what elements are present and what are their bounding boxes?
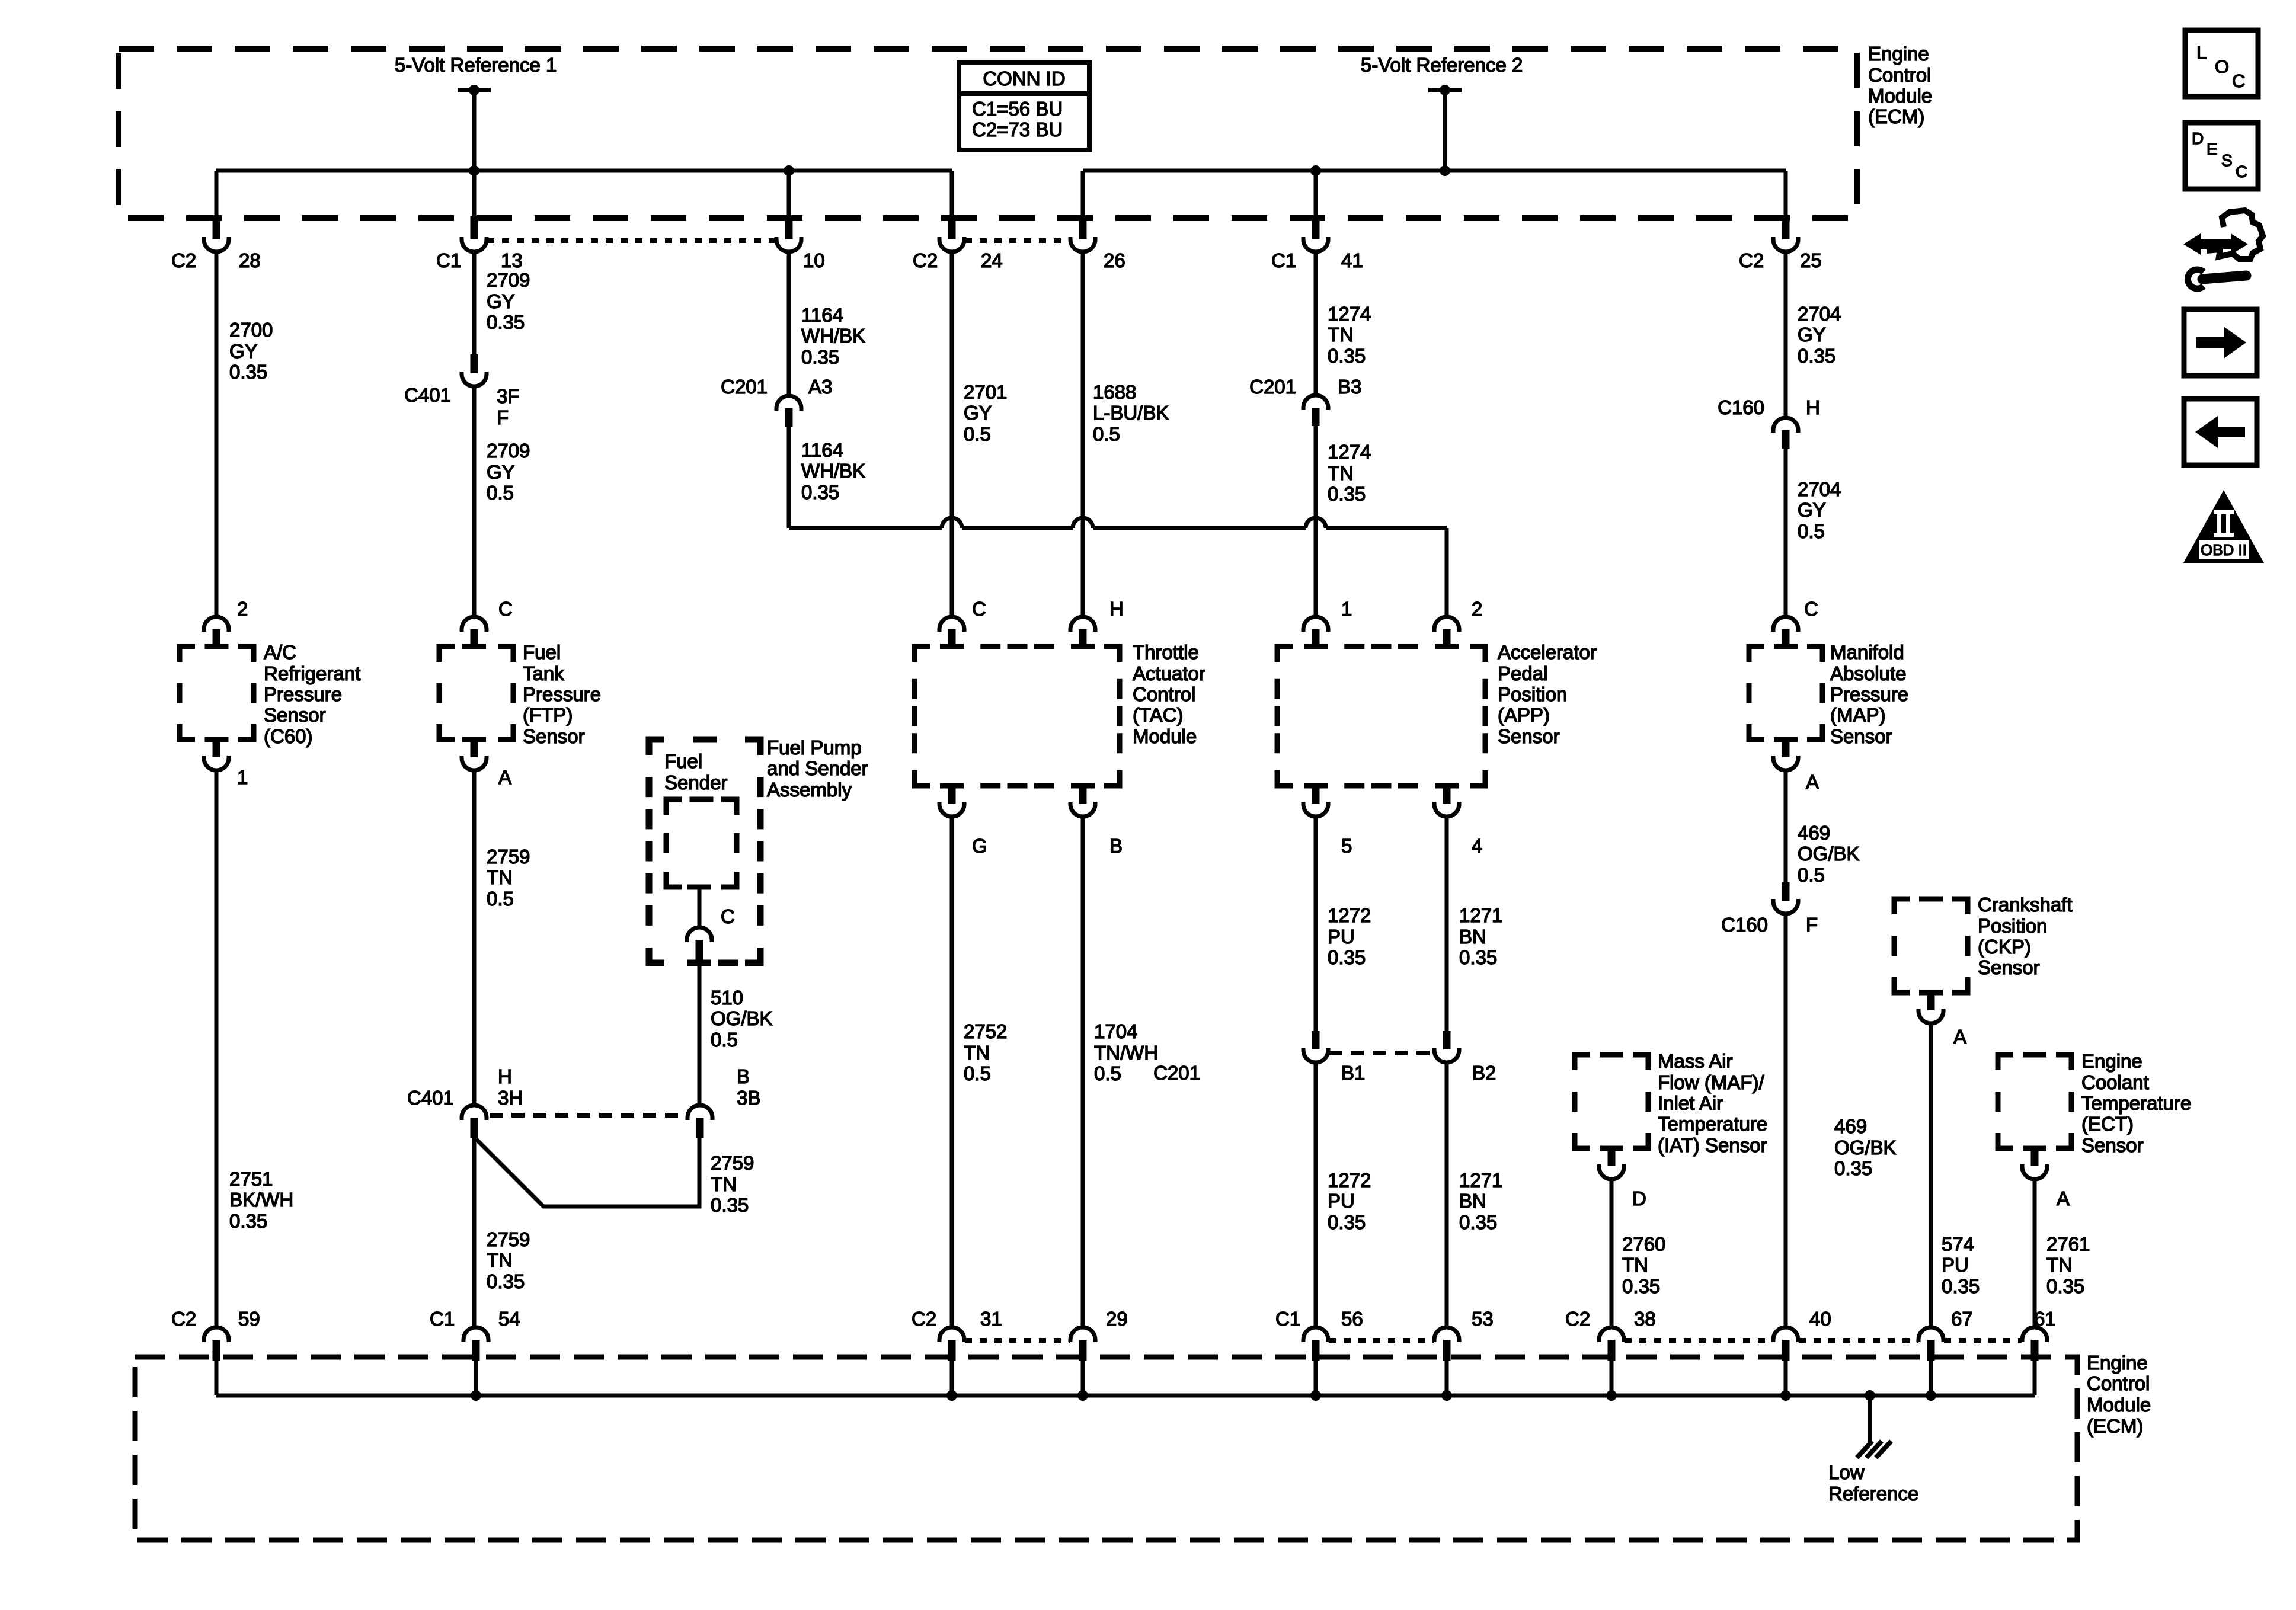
svg-text:2751: 2751 [229,1168,273,1190]
wire hop at 1606 [942,518,962,528]
connector ECM pin C2 24 [948,216,956,239]
svg-text:Position: Position [1498,683,1567,705]
svg-text:Engine: Engine [2081,1050,2142,1072]
svg-text:G: G [972,835,987,857]
svg-text:GY: GY [1798,499,1826,521]
svg-text:24: 24 [981,249,1003,271]
junction 31/bus [946,1390,957,1401]
svg-text:Engine: Engine [2087,1352,2148,1374]
svg-text:5-Volt Reference 2: 5-Volt Reference 2 [1361,54,1523,76]
svg-text:2: 2 [237,598,248,620]
svg-text:1272: 1272 [1328,904,1371,926]
icon back arrow box [2184,399,2257,465]
junction bus1/C1-13 [469,165,479,176]
svg-text:5: 5 [1341,835,1352,857]
svg-text:0.35: 0.35 [801,346,839,368]
ground chassis symbol [1857,1441,1872,1458]
svg-text:F: F [497,406,509,428]
connector ECM pin C1 56 [1303,1327,1328,1342]
svg-text:(APP): (APP) [1498,704,1550,726]
wire 2751 to C2 59 [215,770,219,1326]
svg-text:WH/BK: WH/BK [801,325,865,347]
svg-text:0.5: 0.5 [964,1062,991,1084]
svg-text:0.35: 0.35 [1328,946,1366,968]
connector C160 H [1773,418,1798,433]
svg-text:2: 2 [1472,598,1482,620]
connector APP pin 1 [1303,617,1328,632]
svg-text:GY: GY [487,461,515,483]
connector ECM pin 61 [2022,1327,2047,1342]
svg-text:Position: Position [1978,915,2047,937]
wire 1704 to 29 [1081,817,1085,1326]
svg-text:Pedal: Pedal [1498,662,1547,684]
wire bus1 drop to pin 10 [787,171,791,217]
wire low reference bus [216,1394,2035,1398]
svg-text:H: H [498,1065,512,1087]
wire 2759 0.35 to C1 54 [472,1138,477,1326]
svg-text:Temperature: Temperature [1658,1113,1767,1135]
svg-text:C2: C2 [171,249,196,271]
svg-text:3F: 3F [497,385,520,407]
svg-text:1272: 1272 [1328,1169,1371,1191]
wire 469 0.5 to C160 F [1784,770,1788,885]
svg-text:Actuator: Actuator [1133,662,1205,684]
svg-text:TN: TN [487,1249,513,1271]
connector MAP pin A [1782,740,1790,757]
connector ECM pin C2 28 [213,216,220,239]
connector C201 A3 [776,396,801,411]
wire 1272 from APP 5 [1314,817,1318,1032]
CONN ID table [959,63,1089,150]
svg-text:574: 574 [1942,1233,1974,1255]
svg-text:C201: C201 [721,376,768,398]
wire 2704 0.5 to MAP C [1784,447,1788,617]
svg-text:C201: C201 [1249,376,1296,398]
svg-text:Module: Module [1133,725,1197,747]
svg-text:TN/WH: TN/WH [1094,1042,1158,1064]
connector line C2 24 to 26 (dotted) [965,238,1070,243]
svg-text:510: 510 [711,987,743,1009]
svg-text:C401: C401 [404,384,451,406]
svg-text:0.35: 0.35 [1622,1275,1660,1297]
svg-text:OG/BK: OG/BK [1798,843,1860,865]
svg-text:D: D [2192,129,2204,148]
ECM top dashed box [119,49,1857,218]
svg-text:E: E [2207,140,2218,158]
connector ECM pin 26 [1079,216,1087,239]
wire pin 53 to bus [1445,1361,1449,1395]
junction 40/bus [1780,1390,1791,1401]
wire 1688 from pin 26 [1081,252,1085,617]
wire 1164 to bus [787,425,791,528]
svg-text:38: 38 [1634,1308,1656,1330]
svg-text:C160: C160 [1721,914,1768,936]
svg-text:1688: 1688 [1093,381,1136,403]
icon LOC box [2185,30,2258,97]
svg-text:TN: TN [1328,324,1354,345]
svg-text:H: H [1109,598,1124,620]
junction bus2/C1-41 [1310,165,1321,176]
svg-text:Sensor: Sensor [1498,725,1560,747]
junction 38/bus [1606,1390,1617,1401]
svg-text:2709: 2709 [487,269,530,291]
svg-text:(ECT): (ECT) [2081,1113,2134,1135]
svg-text:0.35: 0.35 [487,311,525,333]
svg-text:A: A [1953,1026,1966,1048]
svg-text:C1: C1 [430,1308,455,1330]
svg-text:67: 67 [1951,1308,1973,1330]
svg-text:Pressure: Pressure [264,683,342,705]
wire 2709 from C1 13 [472,252,477,356]
svg-text:Tank: Tank [523,662,564,684]
connector line C1 13 to 10 (dotted) [487,238,776,243]
svg-text:Reference: Reference [1828,1483,1918,1505]
wire 5v ref2 stem [1443,90,1447,171]
connector CKP pin A [1927,993,1935,1010]
svg-text:C160: C160 [1718,396,1764,418]
svg-text:1271: 1271 [1459,904,1502,926]
svg-text:O: O [2215,56,2229,77]
svg-text:CONN ID: CONN ID [983,68,1065,89]
wire 2701 from C2 24 [950,252,954,617]
wire 1272 to C1 56 [1314,1062,1318,1326]
svg-text:26: 26 [1104,249,1125,271]
svg-text:Mass Air: Mass Air [1658,1050,1733,1072]
icon OBD II triangle [2183,490,2264,563]
svg-text:2704: 2704 [1798,478,1841,500]
connector ECT pin A [2031,1148,2039,1166]
wire 2759 jog from 3H to 3B [476,1138,699,1206]
svg-text:Assembly: Assembly [767,779,852,801]
wire bus2 drop to C1 41 [1314,171,1318,217]
Manifold Absolute Pressure Sensor box [1749,646,1822,740]
svg-text:WH/BK: WH/BK [801,460,865,482]
svg-text:3H: 3H [498,1087,523,1109]
svg-text:B2: B2 [1472,1062,1496,1084]
connector ECM pin C2 59 [204,1327,229,1342]
svg-text:Absolute: Absolute [1830,662,1906,684]
connector ECM pin 67 [1918,1327,1943,1342]
svg-text:(IAT) Sensor: (IAT) Sensor [1658,1134,1767,1156]
wire 1271 to 53 [1445,1062,1449,1326]
svg-text:2759: 2759 [711,1152,754,1174]
svg-text:TN: TN [964,1042,990,1064]
svg-text:C2: C2 [913,249,938,271]
svg-text:(FTP): (FTP) [523,704,573,726]
svg-text:Manifold: Manifold [1830,641,1904,663]
svg-text:Coolant: Coolant [2081,1071,2149,1093]
svg-text:Control: Control [1868,64,1931,86]
svg-text:C2: C2 [912,1308,936,1330]
connector TAC pin C [939,617,964,632]
wire 2704 from C2 25 [1784,252,1788,418]
svg-text:2759: 2759 [487,1228,530,1250]
svg-text:56: 56 [1341,1308,1363,1330]
svg-text:Sensor: Sensor [523,725,585,747]
ECM bottom dashed box [135,1357,2077,1540]
svg-text:Control: Control [1133,683,1195,705]
wire 2761 to pin 61 [2033,1179,2037,1326]
svg-text:0.35: 0.35 [1328,483,1366,505]
svg-text:5-Volt Reference 1: 5-Volt Reference 1 [395,54,557,76]
svg-text:1: 1 [237,766,248,788]
icon DESC box [2185,123,2258,189]
svg-text:A: A [2057,1188,2070,1209]
svg-text:PU: PU [1328,1190,1355,1212]
svg-text:(C60): (C60) [264,725,313,747]
svg-text:0.5: 0.5 [964,423,991,445]
svg-text:0.5: 0.5 [711,1029,738,1051]
wire bus1 drop to C2 28 [215,171,219,217]
svg-text:2760: 2760 [1622,1233,1665,1255]
svg-text:2709: 2709 [487,440,530,462]
svg-text:OG/BK: OG/BK [711,1007,773,1029]
svg-text:0.35: 0.35 [1942,1275,1980,1297]
connector ECM pin C1 54 [463,1327,488,1342]
svg-text:A: A [1806,771,1819,793]
connector Fuel Sender pin C [687,927,712,942]
svg-text:Sensor: Sensor [2081,1134,2144,1156]
svg-text:1: 1 [1341,598,1352,620]
svg-text:L-BU/BK: L-BU/BK [1093,402,1169,424]
svg-text:40: 40 [1809,1308,1831,1330]
connector C401 3H [462,1105,487,1120]
Accelerator Pedal Position Sensor box [1277,646,1485,786]
svg-text:(CKP): (CKP) [1978,936,2031,958]
svg-text:0.35: 0.35 [1328,345,1366,367]
svg-text:(MAP): (MAP) [1830,704,1886,726]
svg-text:H: H [1806,396,1820,418]
svg-text:0.35: 0.35 [487,1270,525,1292]
svg-text:1164: 1164 [801,439,843,461]
svg-text:2700: 2700 [229,319,273,341]
svg-text:0.35: 0.35 [1459,1211,1497,1233]
Fuel Sender box [666,799,737,887]
svg-text:TN: TN [2046,1254,2073,1276]
svg-text:0.5: 0.5 [487,888,514,910]
svg-text:2701: 2701 [964,381,1007,403]
svg-text:C1: C1 [1271,249,1296,271]
svg-text:BK/WH: BK/WH [229,1189,293,1211]
connector TAC pin G [948,786,956,804]
connector ECM pin C2 38 [1599,1327,1624,1342]
connector C201 B1 [1312,1031,1320,1049]
svg-text:C: C [721,905,735,927]
svg-text:469: 469 [1834,1115,1867,1137]
Engine Coolant Temperature Sensor box [1998,1055,2071,1148]
svg-text:1274: 1274 [1328,303,1371,325]
svg-text:PU: PU [1942,1254,1969,1276]
svg-text:C2: C2 [1739,249,1764,271]
wire bus2 drop to C2 25 [1784,171,1788,217]
svg-text:Temperature: Temperature [2081,1092,2191,1114]
svg-text:59: 59 [238,1308,260,1330]
wire 1164 horizontal bus [789,526,942,530]
wire pin 40 to bus [1784,1361,1788,1395]
connector ECM pin 53 [1434,1327,1459,1342]
wire 2700 from C2 28 [215,252,219,617]
svg-text:0.35: 0.35 [229,1210,267,1232]
wire 574 to pin 67 [1929,1023,1933,1326]
svg-text:0.35: 0.35 [801,481,839,503]
connector C401 3B [687,1105,712,1120]
svg-text:B3: B3 [1338,376,1361,398]
connector FTP pin C [462,617,487,632]
wire pin 54 to bus [474,1361,478,1395]
Fuel Pump and Sender Assembly box [649,740,760,963]
svg-text:Inlet Air: Inlet Air [1658,1092,1723,1114]
A/C Refrigerant Pressure Sensor box [180,646,254,740]
svg-text:L: L [2196,42,2207,63]
connector ECM pin C2 25 [1782,216,1790,239]
junction 29/bus [1077,1390,1088,1401]
svg-text:BN: BN [1459,926,1486,948]
svg-text:GY: GY [487,290,515,312]
wire 1164 drop to APP pin 2 [1445,528,1449,617]
connector line C1 56 to 53 (dotted) [1329,1338,1434,1343]
connector APP pin 4 [1443,786,1451,804]
wire pin 59 to bus [215,1361,219,1395]
connector ECM pin C1 41 [1312,216,1320,239]
svg-text:C2=73 BU: C2=73 BU [972,119,1063,140]
svg-text:Flow (MAF)/: Flow (MAF)/ [1658,1071,1764,1093]
icon vehicle with arrow and wrench [2196,239,2236,249]
svg-text:C: C [1804,598,1818,620]
svg-text:TN: TN [487,866,513,888]
connector A/C pin 2 [204,617,229,632]
svg-text:0.35: 0.35 [711,1194,749,1216]
Throttle Actuator Control Module box [914,646,1120,786]
svg-text:Sensor: Sensor [264,704,326,726]
svg-text:Module: Module [1868,85,1932,107]
svg-text:28: 28 [239,249,261,271]
connector ECM pin 29 [1070,1327,1095,1342]
svg-text:TN: TN [1622,1254,1648,1276]
svg-text:Sender: Sender [664,772,727,793]
connector ECM pin 40 [1773,1327,1798,1342]
svg-text:13: 13 [501,249,523,271]
svg-text:(ECM): (ECM) [1868,105,1924,127]
svg-text:Crankshaft: Crankshaft [1978,894,2073,916]
connector ECM pin C1 13 [471,216,478,239]
svg-text:10: 10 [803,249,825,271]
svg-text:GY: GY [229,340,258,362]
svg-text:C1: C1 [1275,1308,1300,1330]
svg-text:A3: A3 [808,376,832,398]
svg-text:Control: Control [2087,1372,2150,1394]
svg-text:Engine: Engine [1868,43,1929,65]
svg-text:D: D [1632,1188,1646,1209]
wire 469 0.35 to pin 40 [1784,914,1788,1326]
svg-text:B1: B1 [1341,1062,1365,1084]
svg-text:0.5: 0.5 [1798,520,1825,542]
wire bus2 drop to pin 26 [1081,171,1085,217]
svg-text:0.5: 0.5 [1094,1062,1121,1084]
svg-text:C: C [498,598,513,620]
svg-text:C: C [972,598,986,620]
svg-text:OBD II: OBD II [2201,541,2247,559]
wire pin 67 to bus [1929,1361,1933,1395]
wire pin 61 to bus [2033,1361,2037,1395]
wire 2752 to C2 31 [950,817,954,1326]
svg-text:C401: C401 [407,1087,454,1109]
svg-text:61: 61 [2034,1308,2056,1330]
connector C160 F [1782,882,1790,901]
wire fuel sender lead [698,887,702,928]
wire 1274 to APP pin 1 [1314,425,1318,617]
svg-text:GY: GY [964,402,992,424]
connector FTP pin A [471,740,478,757]
connector ECM pin C2 31 [939,1327,964,1342]
svg-text:Fuel: Fuel [523,641,561,663]
svg-text:C2: C2 [171,1308,196,1330]
Fuel Tank Pressure Sensor box [439,646,513,740]
connector TAC pin H [1070,617,1095,632]
wire pin 56 to bus [1314,1361,1318,1395]
wire 1164 from pin 10 [787,252,791,396]
wire bus1 drop to C1 13 [472,171,477,217]
connector APP pin 2 [1434,617,1459,632]
svg-text:29: 29 [1106,1308,1128,1330]
svg-text:C1: C1 [436,249,461,271]
connector ECM pin 10 [785,216,793,239]
svg-text:54: 54 [498,1308,520,1330]
Mass Air Flow / IAT Sensor box [1575,1055,1648,1148]
junction 56/bus [1310,1390,1321,1401]
svg-text:Module: Module [2087,1394,2151,1416]
svg-text:C201: C201 [1153,1062,1200,1084]
wire pin 38 to bus [1610,1361,1614,1395]
wire 5v ref1 stem [472,90,477,171]
svg-text:Throttle: Throttle [1133,641,1199,663]
svg-text:F: F [1806,914,1818,936]
svg-text:OG/BK: OG/BK [1834,1137,1897,1158]
svg-text:2761: 2761 [2046,1233,2090,1255]
svg-text:53: 53 [1472,1308,1494,1330]
svg-text:B: B [1109,835,1123,857]
svg-text:S: S [2221,151,2233,169]
svg-text:Refrigerant: Refrigerant [264,662,360,684]
icon forward arrow box [2184,309,2257,376]
wire 2759 0.5 to C401 3H [472,770,477,1106]
wire pin 29 to bus [1081,1361,1085,1395]
svg-text:2759: 2759 [487,846,530,868]
svg-text:C: C [2232,71,2245,91]
wire 510 to C401 3B [698,963,702,1106]
svg-text:BN: BN [1459,1190,1486,1212]
connector MAP pin C [1773,617,1798,632]
svg-text:0.5: 0.5 [487,482,514,504]
svg-text:and Sender: and Sender [767,757,868,779]
junction 54/bus [471,1390,481,1401]
connector C401 3F [471,354,478,373]
svg-text:3B: 3B [737,1087,760,1109]
connector line C2 31 to 29 (dotted) [965,1338,1070,1343]
wire hop at 1827 [1073,518,1093,528]
svg-text:0.35: 0.35 [1834,1157,1872,1179]
connector C201 B3 [1303,395,1328,410]
svg-text:A: A [498,766,511,788]
junction 53/bus [1441,1390,1452,1401]
wire pin 31 to bus [950,1361,954,1395]
Crankshaft Position Sensor box [1894,899,1968,993]
svg-text:0.35: 0.35 [1798,345,1835,367]
svg-text:1271: 1271 [1459,1169,1502,1191]
connector TAC pin B [1079,786,1087,804]
junction bus1/pin10 [784,165,794,176]
connector A/C pin 1 [213,740,220,757]
svg-text:31: 31 [980,1308,1002,1330]
